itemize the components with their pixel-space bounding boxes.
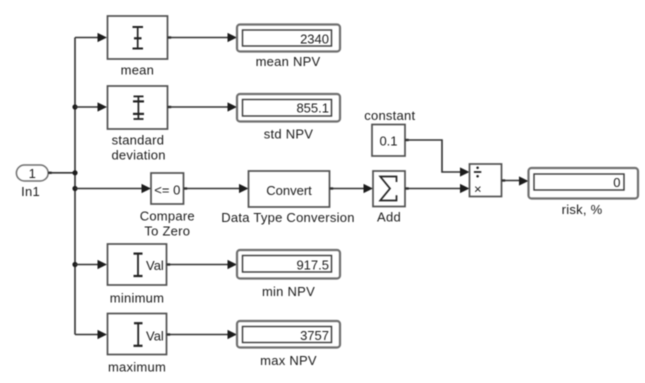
display max NPV <box>237 321 340 348</box>
svg-text:deviation: deviation <box>111 147 165 162</box>
junction at In1 <box>72 170 77 175</box>
svg-text:Val: Val <box>146 329 164 344</box>
wire In1 to trunk <box>48 172 75 174</box>
junction at compare row <box>72 186 77 191</box>
wire trunk to standard deviation <box>75 106 98 108</box>
min icon <box>134 253 143 255</box>
svg-text:855.1: 855.1 <box>296 100 329 115</box>
block Add <box>373 171 405 207</box>
block mean <box>108 16 168 59</box>
svg-text:0.1: 0.1 <box>379 133 397 148</box>
svg-text:Convert: Convert <box>266 183 312 198</box>
svg-text:max NPV: max NPV <box>260 353 317 368</box>
svg-text:×: × <box>474 181 482 196</box>
svg-text:2340: 2340 <box>300 32 329 47</box>
max icon <box>134 322 143 324</box>
wire minimum to display <box>167 264 229 266</box>
wire std to display <box>168 106 229 108</box>
svg-text:Add: Add <box>377 210 401 225</box>
svg-text:standard: standard <box>112 133 165 148</box>
svg-text:<= 0: <= 0 <box>154 182 180 197</box>
svg-text:Compare: Compare <box>140 209 195 224</box>
svg-text:risk, %: risk, % <box>562 202 603 217</box>
wire trunk to mean <box>75 37 98 39</box>
wire compare to convert <box>184 188 240 190</box>
svg-text:0: 0 <box>613 175 620 190</box>
wire convert to add <box>330 188 365 190</box>
svg-text:In1: In1 <box>21 184 40 199</box>
input port In1 <box>16 165 48 181</box>
svg-text:Val: Val <box>146 258 164 273</box>
block minimum <box>108 244 167 285</box>
junction at std row <box>72 104 77 109</box>
svg-text:To Zero: To Zero <box>144 223 190 238</box>
svg-text:3757: 3757 <box>300 328 329 343</box>
block maximum <box>108 314 167 355</box>
trunk wire <box>74 38 76 335</box>
display mean NPV <box>237 25 340 52</box>
wire trunk to minimum <box>75 264 98 266</box>
svg-text:mean NPV: mean NPV <box>256 54 321 69</box>
wire maximum to display <box>167 334 229 336</box>
svg-text:constant: constant <box>364 108 415 123</box>
svg-text:min NPV: min NPV <box>262 284 315 299</box>
svg-text:minimum: minimum <box>110 290 164 305</box>
std icon <box>134 95 144 97</box>
display risk <box>529 168 639 199</box>
wire divide to risk display <box>502 180 520 182</box>
display std NPV <box>237 94 340 122</box>
wire trunk to compare <box>75 188 142 190</box>
svg-text:maximum: maximum <box>108 360 166 375</box>
junction at min row <box>72 262 77 267</box>
sigma icon <box>380 177 396 201</box>
block Data Type Conversion <box>249 171 330 207</box>
svg-text:std NPV: std NPV <box>264 126 314 141</box>
svg-text:1: 1 <box>29 166 36 181</box>
wire mean to display <box>168 37 229 39</box>
block Compare To Zero <box>151 173 184 204</box>
block divide <box>470 164 502 197</box>
block constant 0.1 <box>372 125 405 157</box>
svg-text:Data Type Conversion: Data Type Conversion <box>221 210 354 225</box>
svg-text:mean: mean <box>121 63 155 78</box>
wire add to divide <box>405 188 461 190</box>
mean icon <box>133 26 144 28</box>
svg-text:917.5: 917.5 <box>296 258 329 273</box>
wire trunk to maximum <box>75 334 98 336</box>
block standard deviation <box>108 86 168 129</box>
wire constant to divide <box>405 140 461 172</box>
display min NPV <box>237 250 340 279</box>
